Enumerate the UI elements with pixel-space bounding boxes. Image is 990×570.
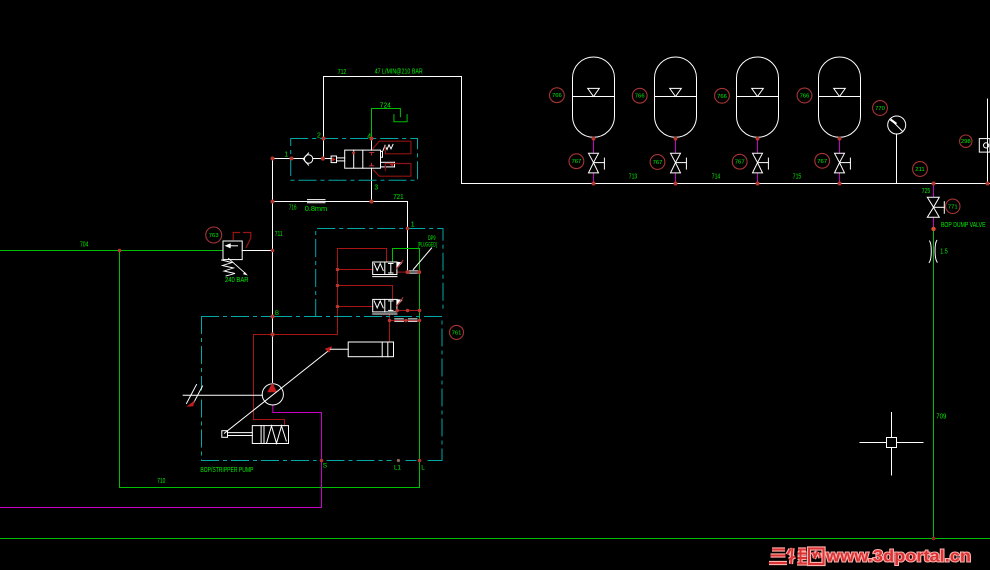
svg-text:1: 1 bbox=[411, 221, 415, 228]
bias spring cylinder bbox=[222, 426, 289, 444]
label circle 766 #3 bbox=[715, 88, 730, 103]
enclosure DP9 solenoid block bbox=[316, 229, 443, 317]
node 2 dot bbox=[322, 137, 326, 141]
check valve bbox=[303, 153, 313, 165]
svg-text:721: 721 bbox=[393, 192, 404, 201]
node dot manifold acc3 bbox=[756, 182, 760, 186]
node dot S port bbox=[320, 459, 324, 463]
wire plugged ports row bbox=[390, 320, 420, 322]
pump flow arrow bbox=[267, 383, 277, 393]
svg-text:766: 766 bbox=[717, 94, 728, 100]
node dot pump box top bbox=[271, 315, 275, 319]
label circle 766 #2 bbox=[632, 88, 647, 103]
node dot acc4 bottom bbox=[838, 137, 842, 141]
svg-text:724: 724 bbox=[380, 100, 391, 109]
label circle 767 #2 bbox=[650, 155, 665, 170]
node dot plug row c bbox=[418, 319, 422, 323]
node dot dump tee bbox=[932, 182, 936, 186]
svg-text:1.5: 1.5 bbox=[940, 248, 948, 255]
wire to solenoid valve V2 left bbox=[338, 306, 373, 308]
node 4 dot bbox=[370, 137, 374, 141]
node dot V2 left bbox=[336, 305, 340, 309]
node dot check valve out bbox=[321, 156, 325, 160]
svg-text:L1: L1 bbox=[394, 464, 401, 471]
DP9 plug symbol bbox=[409, 271, 418, 273]
pressure switch 298 box bbox=[979, 139, 990, 153]
BOP dump valve 771 bbox=[927, 197, 944, 217]
svg-text:47 L/MIN@210 BAR: 47 L/MIN@210 BAR bbox=[375, 67, 423, 76]
solenoid valve V1 bbox=[373, 262, 402, 277]
node dot V1 left bbox=[336, 268, 340, 272]
svg-text:[PLUGGED]: [PLUGGED] bbox=[418, 242, 437, 249]
label circle 211 bbox=[913, 162, 928, 177]
hose break symbol 1.5 bbox=[929, 240, 937, 262]
wire pump suction S bbox=[0, 405, 322, 508]
accumulator 766 #3 bbox=[737, 57, 779, 137]
relief valve pilot bracket bbox=[233, 233, 251, 248]
svg-text:766: 766 bbox=[552, 93, 563, 99]
solenoid V2 lever red bbox=[396, 298, 403, 307]
wire 710 return loop bbox=[120, 249, 420, 488]
svg-text:770: 770 bbox=[875, 106, 886, 112]
wire to solenoid valve V1 left bbox=[338, 269, 373, 271]
label circle 770 bbox=[873, 101, 888, 116]
svg-text:711: 711 bbox=[275, 229, 283, 238]
wire right edge riser bbox=[987, 99, 989, 184]
enclosure BOP/stripper pump (dash-dot) bbox=[202, 317, 443, 461]
wire accumulator 4 stem bbox=[839, 139, 841, 184]
main valve port marks red bbox=[370, 153, 374, 166]
svg-text:714: 714 bbox=[712, 172, 720, 181]
node dot acc1 bottom bbox=[592, 137, 596, 141]
wire accumulator manifold bbox=[462, 183, 990, 185]
wire to solenoid valve V1 top bbox=[338, 249, 387, 263]
wire node1 horizontal bbox=[273, 158, 332, 160]
wire accumulator 1 stem bbox=[593, 139, 595, 184]
svg-text:L: L bbox=[421, 464, 425, 471]
label circle 298 bbox=[960, 135, 972, 147]
svg-text:709: 709 bbox=[936, 411, 946, 420]
svg-text:2: 2 bbox=[317, 132, 321, 139]
solenoid coil lower bbox=[374, 164, 411, 177]
svg-text:710: 710 bbox=[157, 476, 165, 485]
solenoid valve V2 bbox=[373, 299, 402, 314]
wire 712 top supply pipe bbox=[324, 77, 462, 184]
svg-text:763: 763 bbox=[209, 233, 220, 239]
node dot DP9 plug left bbox=[406, 270, 410, 274]
wire pump pressure tap bbox=[254, 334, 338, 336]
node dot return bottom bbox=[932, 537, 936, 541]
svg-text:767: 767 bbox=[817, 159, 827, 165]
node dot manifold acc1 bbox=[592, 182, 596, 186]
node dot box edge port 1 bbox=[290, 157, 294, 161]
label circle 767 #3 bbox=[732, 154, 747, 169]
node dot DP9 plug right bbox=[417, 270, 421, 274]
node dot manifold acc4 bbox=[838, 182, 842, 186]
node dot manifold end bbox=[986, 182, 990, 186]
isolation valve 767 #1 bbox=[589, 153, 605, 173]
svg-text:713: 713 bbox=[629, 172, 637, 181]
wire V1 right port to DP9 plug bbox=[397, 271, 408, 273]
wire to solenoid valve V2 top bbox=[338, 286, 393, 300]
node dot acc2 bottom bbox=[674, 137, 678, 141]
label circle 761 bbox=[450, 325, 464, 339]
svg-text:766: 766 bbox=[800, 94, 811, 100]
node dot dump valve bottom bbox=[931, 227, 935, 231]
isolation valve 767 #2 bbox=[671, 153, 687, 173]
main valve spool arrow right bbox=[390, 163, 394, 167]
plugged port symbols row bbox=[395, 319, 417, 321]
label circle 766 #1 bbox=[550, 88, 565, 103]
node dot line1 left bbox=[271, 157, 275, 161]
pump drive shaft bbox=[183, 385, 262, 406]
label circle 771 bbox=[946, 199, 960, 213]
node dot L port bbox=[418, 459, 422, 463]
wire gauge stem bbox=[896, 134, 898, 184]
svg-text:S: S bbox=[323, 463, 328, 470]
node dot L1 port gray bbox=[397, 459, 400, 462]
node 3 dot bbox=[369, 199, 373, 203]
wire 725 dump valve stem bbox=[933, 184, 935, 229]
node dot plug row b bbox=[404, 319, 408, 323]
wire 721 drop to DP9 bbox=[407, 202, 409, 273]
node dot acc3 bottom bbox=[756, 137, 760, 141]
swashplate arrow bbox=[325, 346, 333, 353]
svg-text:B: B bbox=[275, 311, 279, 317]
svg-text:0.8mm: 0.8mm bbox=[305, 204, 328, 213]
svg-text:298: 298 bbox=[961, 139, 972, 145]
label circle 767 #4 bbox=[815, 153, 830, 168]
svg-text:BOP/STRIPPER PUMP: BOP/STRIPPER PUMP bbox=[200, 467, 253, 474]
svg-text:BOP DUMP VALVE: BOP DUMP VALVE bbox=[941, 222, 986, 229]
svg-text:716: 716 bbox=[289, 203, 297, 212]
enclosure main control valve (dash-dot) bbox=[291, 139, 418, 181]
svg-text:725: 725 bbox=[922, 186, 930, 195]
wire V2 bottom to servo cylinder bbox=[389, 315, 391, 342]
swashplate control line bbox=[225, 349, 331, 433]
AutoCAD crosshair cursor bbox=[860, 413, 923, 476]
isolation valve 767 #4 bbox=[835, 153, 851, 173]
main valve spool arrow left bbox=[332, 157, 335, 161]
svg-text:www.3dportal.cn: www.3dportal.cn bbox=[825, 547, 971, 566]
svg-text:715: 715 bbox=[793, 172, 801, 181]
node dot pressure tap tee bbox=[270, 332, 274, 336]
wire 716 orifice line bbox=[273, 201, 408, 203]
wire 724 vent line bbox=[372, 109, 401, 139]
node dot manifold acc2 bbox=[674, 182, 678, 186]
svg-text:712: 712 bbox=[338, 67, 346, 76]
wire 704 supply line bbox=[0, 250, 223, 252]
node dot V2 top tee bbox=[336, 284, 340, 288]
wire valve port 3 drop bbox=[371, 139, 373, 151]
wire pilot bus vertical bbox=[337, 249, 339, 335]
label circle 766 #4 bbox=[797, 88, 812, 103]
wire V2 right port to return bbox=[397, 310, 420, 312]
pressure gauge 770 bbox=[888, 116, 906, 134]
node dot 716 left bbox=[271, 200, 275, 204]
main control valve body bbox=[331, 144, 394, 168]
node dot spool top bbox=[352, 151, 355, 154]
node dot V2 right a bbox=[395, 309, 399, 313]
isolation valve 767 #3 bbox=[753, 153, 769, 173]
node dot plug row a bbox=[388, 319, 392, 323]
node dot 704/710 tee bbox=[118, 249, 122, 253]
accumulator 766 #1 bbox=[573, 57, 615, 137]
svg-text:1: 1 bbox=[284, 151, 288, 158]
svg-text:761: 761 bbox=[452, 330, 462, 336]
svg-text:3: 3 bbox=[374, 185, 378, 192]
node dot V2 right b bbox=[406, 309, 410, 313]
solenoid V1 lever red bbox=[396, 260, 403, 269]
svg-text:767: 767 bbox=[735, 160, 745, 166]
vent cup symbol 724 bbox=[394, 115, 407, 122]
wire accumulator 2 stem bbox=[675, 139, 677, 184]
svg-text:240 BAR: 240 BAR bbox=[225, 277, 249, 284]
wire 709 dump line bbox=[933, 229, 935, 539]
svg-text:211: 211 bbox=[915, 167, 924, 173]
DP9 leader line bbox=[413, 248, 431, 270]
label circle 767 #1 bbox=[569, 154, 584, 169]
svg-text:704: 704 bbox=[80, 239, 88, 248]
svg-text:771: 771 bbox=[948, 204, 958, 210]
wire bottom main return bbox=[0, 538, 990, 540]
shaft rotation arrow bbox=[187, 400, 195, 407]
node dot relief out bbox=[271, 249, 275, 253]
accumulator 766 #4 bbox=[819, 57, 861, 137]
wire left supply drop to pump bbox=[272, 159, 274, 385]
svg-text:766: 766 bbox=[635, 94, 646, 100]
relief valve 763 bbox=[222, 241, 273, 276]
servo cylinder bbox=[330, 342, 393, 357]
orifice 0.8mm symbol bbox=[308, 200, 326, 203]
wire accumulator 3 stem bbox=[757, 139, 759, 184]
label circle 763 bbox=[206, 227, 222, 243]
wire node2 drop bbox=[323, 139, 325, 159]
solenoid coil upper bbox=[373, 141, 411, 154]
pump circle bbox=[262, 384, 283, 405]
svg-text:767: 767 bbox=[571, 159, 581, 165]
svg-text:767: 767 bbox=[653, 160, 663, 166]
accumulator 766 #2 bbox=[655, 57, 697, 137]
watermark 三维网 hanzi strokes bbox=[769, 548, 824, 564]
wire bias cylinder feed bbox=[254, 335, 285, 426]
node dot DP9 box top bbox=[406, 227, 410, 231]
node dot V2 right c bbox=[418, 309, 422, 313]
